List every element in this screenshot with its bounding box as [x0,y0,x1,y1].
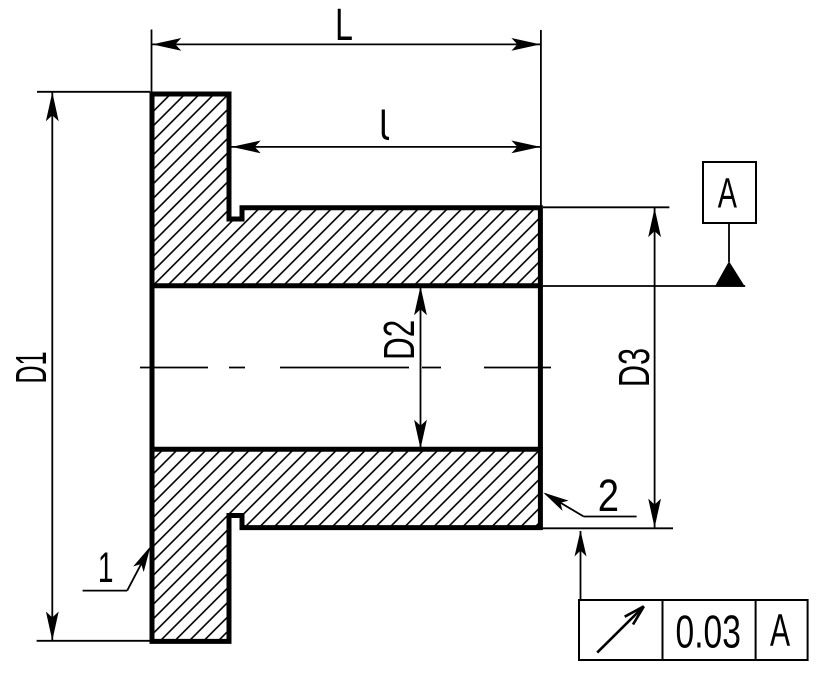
centerline (dash-dot axis) [140,367,551,369]
upper hatched cross-section (flange + body top wall) [152,94,540,286]
datum triangle (filled) [715,261,745,287]
flange left edge through bore [150,286,155,450]
leader 2 slant line [546,494,584,517]
svg-text:0.03: 0.03 [676,606,741,657]
runout frame leader arrow [575,531,587,557]
dimension D1 bottom arrow [46,612,59,641]
dimension L left arrow [152,38,181,51]
dimension L/l extension line right [540,30,542,208]
runout frame divider 2 [755,600,757,660]
runout frame leader line [580,531,582,600]
datum frame box [703,162,756,223]
leader 1 slant line [127,550,148,591]
dimension L extension line left [151,30,153,95]
dimension D1 line [51,92,53,641]
datum extension line (bore top extended) [543,285,745,287]
dimension D1 extension line bottom [37,640,153,642]
dimension l left arrow [232,141,261,154]
dimension D2 line [420,286,422,450]
leader 2 arrow [543,493,568,511]
leader 2 underline [584,516,637,518]
datum leader stem [728,223,730,262]
lower hatched cross-section (flange + body bottom wall) [152,449,540,641]
dimension D3 bottom arrow [648,499,661,528]
dimension D3 extension line top [543,206,669,208]
dimension D2 top arrow [414,286,427,315]
runout symbol (slanted arrow) [597,607,643,652]
runout frame box [579,600,808,660]
runout frame divider 1 [662,600,664,660]
dimension D3 top arrow [648,208,661,237]
dimension D2 bottom arrow [414,420,427,449]
leader 1 underline [83,590,128,592]
dimension L right arrow [511,38,540,51]
svg-text:1: 1 [98,543,114,591]
svg-text:D2: D2 [375,320,424,360]
dimension D1 top arrow [46,92,59,121]
dimension D1 extension line top [37,91,150,93]
dimension L line [152,43,541,45]
dimension l right arrow [511,141,540,154]
svg-text:A: A [718,169,738,217]
svg-text:D3: D3 [611,348,660,387]
dimension l line [231,146,540,148]
dimension D3 extension line bottom [543,527,674,529]
dimension D3 line [654,208,656,528]
leader 1 arrow [133,546,150,572]
svg-text:A: A [770,606,790,657]
body right edge through bore [538,286,543,450]
svg-text:2: 2 [598,470,619,521]
svg-text:L: L [335,1,353,51]
svg-text:D1: D1 [7,351,56,383]
dimension l label [383,110,389,139]
